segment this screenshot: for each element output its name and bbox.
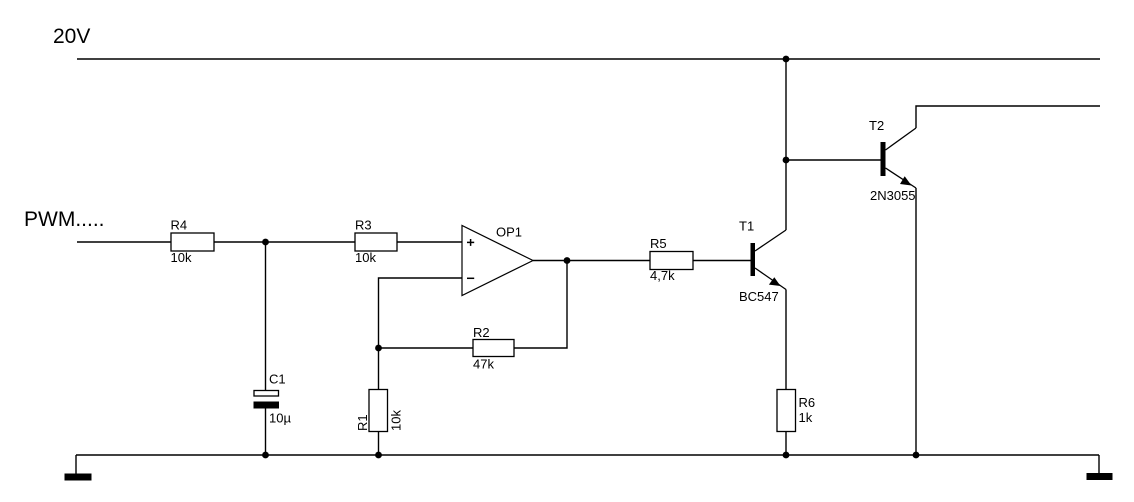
ground symbol left [65, 455, 92, 481]
wire PWM input [77, 241, 171, 243]
junction node R1 on rail [375, 452, 382, 459]
resistor R4 [171, 218, 215, 266]
junction node at R4/C1 [262, 239, 269, 246]
wire R4 to R3 [214, 241, 355, 243]
junction node feedback [375, 345, 382, 352]
svg-text:BC547: BC547 [739, 289, 779, 304]
svg-text:R1: R1 [355, 414, 370, 431]
transistor T1 [739, 219, 786, 305]
wire output down to R2 [514, 261, 567, 349]
junction node at op-amp output [564, 257, 571, 264]
transistor T2 [869, 118, 916, 203]
wire bottom ground rail [76, 454, 1099, 456]
svg-text:R3: R3 [355, 218, 372, 233]
ground symbol right [1087, 455, 1113, 480]
wire T1 emitter to R6 [785, 290, 787, 390]
svg-text:PWM.....: PWM..... [24, 208, 105, 231]
svg-text:1k: 1k [799, 410, 813, 425]
svg-text:10k: 10k [355, 250, 376, 265]
svg-text:R5: R5 [650, 236, 667, 251]
wire R5 to T1 base [693, 260, 751, 262]
svg-text:2N3055: 2N3055 [870, 188, 916, 203]
wire T2 base [786, 159, 881, 161]
svg-text:10k: 10k [389, 410, 404, 431]
junction node on 20V rail [783, 56, 790, 63]
junction node R6 on rail [783, 452, 790, 459]
junction node T2 base tap [783, 157, 790, 164]
capacitor C1 [254, 372, 291, 426]
svg-text:10µ: 10µ [269, 411, 291, 426]
wire R1 to ground rail [378, 432, 380, 456]
resistor R6 [777, 390, 815, 432]
wire op-amp output to R5 [533, 260, 650, 262]
svg-text:4,7k: 4,7k [650, 268, 675, 283]
svg-text:R4: R4 [171, 218, 188, 233]
svg-text:T1: T1 [739, 219, 754, 234]
resistor R2 [473, 325, 514, 372]
svg-text:C1: C1 [269, 372, 286, 387]
resistor R1 [355, 390, 404, 432]
svg-text:OP1: OP1 [496, 225, 522, 240]
svg-text:20V: 20V [53, 25, 90, 48]
op-amp OP1 [462, 225, 533, 296]
svg-text:47k: 47k [473, 357, 494, 372]
svg-text:R2: R2 [473, 325, 490, 340]
svg-text:T2: T2 [869, 118, 884, 133]
wire T2 emitter down to ground rail [915, 188, 917, 455]
wire T1 collector up to 20V rail [785, 59, 787, 230]
wire C1 to ground rail [265, 408, 267, 455]
wire T2 collector [916, 106, 1100, 128]
wire node to C1 [265, 242, 267, 391]
junction node T2 emitter on rail [913, 452, 920, 459]
wire op-amp minus input feedback [379, 278, 463, 348]
svg-text:10k: 10k [171, 250, 192, 265]
wire R2 to feedback node [379, 347, 474, 349]
resistor R3 [355, 218, 397, 266]
wire R3 to op-amp plus input [397, 241, 462, 243]
wire R6 to ground rail [785, 432, 787, 456]
svg-text:R6: R6 [799, 395, 816, 410]
wire top 20V rail [77, 58, 1100, 60]
junction node C1 on rail [262, 452, 269, 459]
resistor R5 [650, 236, 693, 283]
wire feedback node to R1 [378, 348, 380, 390]
